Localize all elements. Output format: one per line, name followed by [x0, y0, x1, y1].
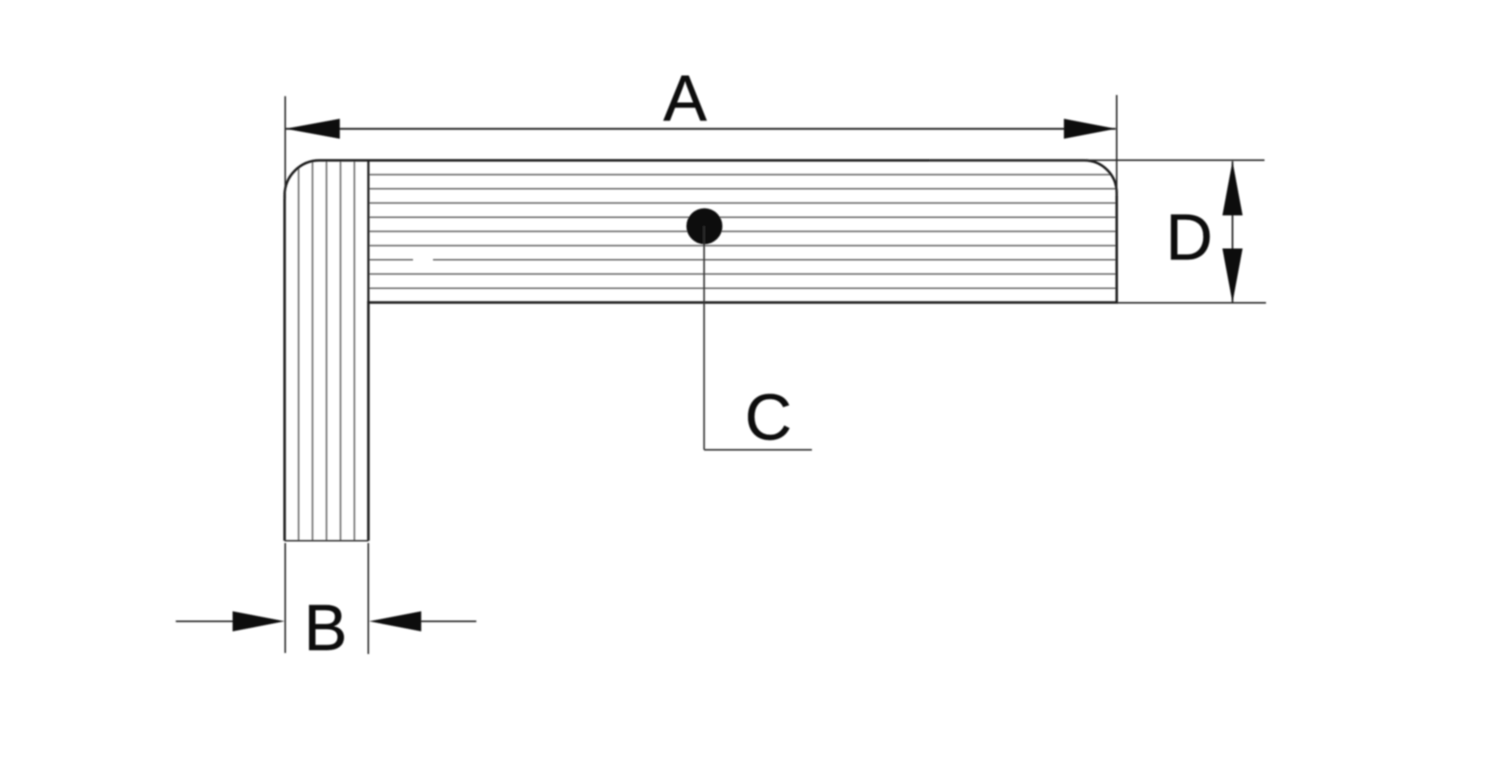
dim A arrowhead left	[285, 119, 339, 139]
hole center dot	[686, 208, 722, 244]
dim B extension line right	[367, 543, 369, 654]
horizontal hatch lines (bar)	[368, 175, 1116, 289]
dim B tail left	[176, 620, 233, 622]
dim B tail right	[421, 620, 476, 622]
leader line C horizontal	[704, 449, 812, 451]
dim A extension line left	[284, 96, 286, 199]
dim D line	[1232, 161, 1234, 302]
svg-text:B: B	[304, 591, 347, 664]
svg-text:A: A	[663, 62, 707, 135]
dim D arrowhead down	[1222, 249, 1242, 303]
dim B arrowhead right	[369, 611, 421, 631]
leader line C vertical	[703, 226, 705, 450]
vertical hatch lines (leg)	[299, 160, 355, 540]
dim A extension line right	[1116, 95, 1118, 196]
dim D arrowhead up	[1222, 161, 1242, 215]
seam line between leg and bar	[367, 160, 369, 302]
dim A line	[286, 128, 1116, 130]
dim D extension line top	[929, 159, 1265, 161]
dim B arrowhead left	[233, 611, 285, 631]
svg-text:C: C	[745, 381, 792, 454]
dim D extension line bottom	[1117, 302, 1266, 304]
svg-text:D: D	[1166, 201, 1213, 274]
dim B extension line left	[284, 543, 286, 653]
dim A arrowhead right	[1064, 119, 1116, 139]
part outline (L-profile with rounded top corners)	[285, 160, 1117, 540]
leg bottom break line	[285, 540, 369, 542]
